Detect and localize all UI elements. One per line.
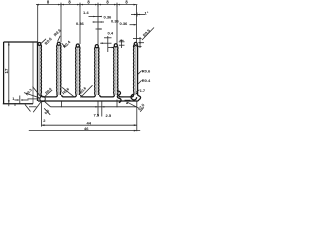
fin at x=58.8 bbox=[58, 45, 60, 95]
fin at x=77.8 bbox=[77, 47, 79, 95]
right wall fin core bbox=[135, 45, 137, 96]
extension line x61.5 below bbox=[61, 101, 63, 107]
extension lines x98 x102 below bbox=[97, 101, 99, 116]
dim line A y125.2 bbox=[42, 124, 137, 126]
svg-text:44: 44 bbox=[87, 120, 92, 125]
fin root valleys bbox=[41, 95, 57, 97]
svg-text:R0.4: R0.4 bbox=[142, 78, 151, 83]
extension lines from chain down to fin tips bbox=[37, 5, 39, 42]
dim line y106.8 bbox=[51, 106, 137, 108]
label R0.4 right side bbox=[138, 80, 142, 84]
svg-text:46: 46 bbox=[84, 126, 89, 131]
short line left below bbox=[29, 106, 37, 108]
dim line y22 at fin4 bbox=[93, 21, 105, 23]
leader to fin2 tip right bbox=[62, 43, 66, 47]
s-hook detail at fin5 root bbox=[117, 91, 121, 103]
svg-text:R0.6: R0.6 bbox=[142, 68, 151, 73]
fin5 tip mini arrow bbox=[120, 39, 124, 41]
svg-text:0.36: 0.36 bbox=[111, 19, 120, 24]
leader into dim row bbox=[44, 108, 50, 115]
arrowheads on pitch chain bbox=[36, 4, 39, 6]
left block bottom edge bbox=[3, 103, 33, 105]
right wall tip bracket bbox=[133, 38, 142, 40]
j-curl at right wall foot bbox=[131, 94, 137, 100]
svg-text:7.5: 7.5 bbox=[94, 113, 100, 118]
leader to fin1 tip bbox=[41, 39, 46, 43]
root radius leader in gap3 bbox=[81, 85, 93, 97]
svg-text:1°: 1° bbox=[145, 11, 149, 16]
fin 1 wavy right edge bbox=[40, 45, 42, 97]
small dim arrows inside left block bbox=[15, 99, 19, 101]
detail circle at fin1 root bbox=[40, 96, 45, 101]
dim line B y130.6 bbox=[29, 130, 140, 132]
ticks in gap5 root bbox=[124, 96, 130, 98]
ticks below side view bbox=[8, 103, 10, 106]
dim line y16.5 at fin4 bbox=[89, 16, 102, 18]
root radius leader in gap2 bbox=[62, 87, 73, 96]
leaders through detail circle bbox=[33, 87, 42, 98]
left block left edge bbox=[3, 42, 5, 104]
fin 1 (wall fin) cap bbox=[38, 42, 41, 45]
tick in left block bottom bbox=[19, 96, 21, 104]
leader from base to 62.5 bbox=[126, 101, 128, 104]
extension line x117 below bbox=[116, 100, 118, 108]
label 1.7 right side bbox=[136, 90, 139, 92]
fin 1 core bbox=[38, 45, 40, 96]
extension line x41.5 below bbox=[41, 101, 43, 126]
right wall outer edge with foot hook bbox=[138, 45, 141, 101]
bracket between fin5 and wall bbox=[121, 40, 123, 49]
dim line y14.5 at right wall bbox=[131, 14, 145, 16]
section bottom face bbox=[38, 100, 138, 102]
dim line y29 left of fin4 bbox=[96, 28, 103, 30]
fin5 lower arrow dim bbox=[108, 47, 113, 49]
extension line x136.8 below bbox=[136, 101, 138, 131]
svg-text:2.5: 2.5 bbox=[106, 113, 112, 118]
svg-text:0.36: 0.36 bbox=[120, 21, 129, 26]
svg-text:1.4: 1.4 bbox=[83, 10, 89, 15]
leader to fin2 tip left bbox=[58, 36, 61, 42]
arrow at right wall top bbox=[139, 42, 144, 44]
svg-text:17: 17 bbox=[4, 68, 9, 73]
svg-text:0.4: 0.4 bbox=[108, 31, 114, 36]
left block inner vertical bbox=[32, 42, 34, 103]
left wall of section bbox=[37, 43, 39, 102]
height dim line 17 inside left block bbox=[8, 42, 10, 103]
dim line y24.7 at right wall lower bbox=[130, 24, 137, 26]
leader below left block bbox=[25, 105, 31, 112]
right wall wavy inner edge bbox=[133, 45, 135, 95]
leader for R0.5 top right bbox=[142, 28, 154, 41]
fin at x=115.8 bbox=[115, 47, 117, 95]
label R0.6 right side bbox=[138, 71, 142, 75]
right wall fin cap bbox=[134, 42, 137, 45]
dimension line: top pitch chain bbox=[36, 4, 137, 6]
notch on outer wall bbox=[136, 92, 137, 94]
svg-text:0.36: 0.36 bbox=[76, 21, 85, 26]
left block top edge bbox=[4, 41, 38, 43]
fin at x=96.8 bbox=[96, 47, 98, 95]
fin4 tip mini dim bracket bbox=[107, 36, 109, 52]
svg-text:1.7: 1.7 bbox=[140, 88, 146, 93]
